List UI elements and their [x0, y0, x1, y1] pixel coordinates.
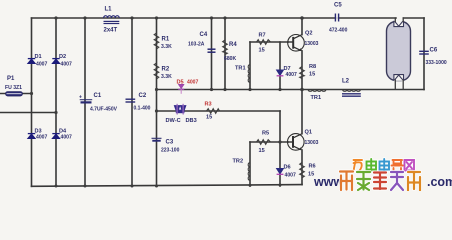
resistor R7 — [257, 33, 271, 54]
inductor L1 — [104, 7, 120, 34]
diode D4 — [52, 129, 72, 141]
svg-text:103-2A: 103-2A — [188, 42, 205, 48]
svg-text:C2: C2 — [139, 93, 147, 99]
transformer TR1 output winding — [308, 90, 326, 102]
inductor L2 — [342, 79, 361, 97]
wire D7 vertical — [279, 42, 281, 90]
wire R4 vertical — [224, 18, 226, 90]
node junction dots — [30, 16, 304, 187]
svg-text:DB3: DB3 — [186, 118, 197, 124]
diode D2 — [52, 54, 72, 68]
capacitor C6 — [419, 48, 447, 67]
svg-text:Q2: Q2 — [305, 31, 312, 37]
svg-text:.com: .com — [427, 175, 452, 189]
svg-text:4007: 4007 — [187, 80, 198, 86]
svg-text:TR2: TR2 — [233, 159, 244, 165]
svg-text:4007: 4007 — [286, 72, 297, 78]
svg-text:4007: 4007 — [61, 62, 72, 68]
wire bridge left vertical D1/D3 — [31, 18, 33, 186]
resistor R1 — [154, 33, 172, 50]
diac DW-C DB3 — [166, 104, 197, 124]
fuse P1 — [5, 76, 23, 96]
svg-text:4007: 4007 — [285, 173, 296, 179]
transistor Q2 — [288, 31, 319, 52]
svg-text:D5: D5 — [177, 80, 184, 86]
wire fuse input — [0, 93, 32, 95]
svg-text:R6: R6 — [309, 164, 316, 170]
svg-text:D2: D2 — [59, 54, 66, 60]
resistor R4 — [223, 40, 238, 62]
svg-text:3.3K: 3.3K — [161, 74, 172, 80]
wire C2 vertical — [131, 18, 133, 186]
wire Q2 base R7 — [250, 41, 288, 43]
transformer TR2 base winding — [233, 159, 251, 181]
wire D6 vertical — [279, 142, 281, 186]
svg-text:Q1: Q1 — [305, 130, 312, 136]
diode D1 — [28, 54, 48, 68]
wire Q2 emitter to node — [301, 51, 303, 90]
wire lamp bottom-right pin — [402, 80, 404, 90]
svg-text:R5: R5 — [262, 131, 269, 137]
svg-text:4007: 4007 — [36, 135, 47, 141]
svg-text:4007: 4007 — [36, 62, 47, 68]
wire top rail — [32, 17, 336, 19]
wire Q2 collector from rail — [301, 18, 303, 35]
svg-text:D1: D1 — [35, 54, 42, 60]
svg-text:L2: L2 — [342, 79, 350, 85]
svg-text:FU 3Z1: FU 3Z1 — [5, 85, 22, 91]
diode D7 — [277, 66, 297, 78]
wire C4 vertical — [211, 18, 213, 90]
wire top rail lamp to C6 corner — [404, 17, 425, 19]
diode D3 — [28, 129, 48, 141]
svg-text:www: www — [313, 175, 343, 189]
svg-text:C3: C3 — [166, 140, 174, 146]
svg-text:15: 15 — [206, 115, 212, 121]
wire DW diac horizontal — [157, 110, 281, 112]
resistor R2 — [154, 63, 172, 80]
svg-text:15: 15 — [309, 72, 315, 78]
svg-text:DW-C: DW-C — [166, 118, 181, 124]
capacitor C1 — [79, 93, 118, 113]
svg-text:+: + — [79, 95, 82, 101]
wire Q1 emitter to bottom rail — [301, 150, 303, 185]
svg-text:R4: R4 — [229, 42, 237, 48]
wire TR2 coil vertical — [249, 142, 251, 186]
capacitor C4 — [188, 32, 216, 52]
resistor R8 — [300, 64, 316, 79]
svg-text:C1: C1 — [94, 93, 102, 99]
capacitor C2 — [126, 93, 151, 112]
resistor R3 — [205, 102, 220, 121]
svg-text:472-400: 472-400 — [329, 28, 348, 34]
wire lamp top-right pin — [402, 17, 404, 22]
svg-text:680K: 680K — [224, 56, 236, 62]
wire node to Q1 collector — [301, 90, 303, 134]
wire bridge right vertical D2/D4 — [55, 18, 57, 186]
svg-text:R7: R7 — [259, 33, 266, 39]
svg-text:15: 15 — [259, 48, 265, 54]
wire R3 feed down — [279, 111, 281, 142]
watermark row1 广电电器网 — [354, 159, 415, 172]
svg-text:R1: R1 — [162, 37, 170, 43]
svg-text:TR1: TR1 — [235, 66, 246, 72]
svg-text:223-100: 223-100 — [161, 148, 180, 154]
resistor R6 — [300, 163, 316, 178]
svg-text:333-1000: 333-1000 — [426, 60, 447, 66]
wire TR1 coil vertical — [249, 42, 251, 90]
svg-text:P1: P1 — [7, 76, 15, 82]
svg-text:R3: R3 — [205, 102, 212, 108]
svg-text:R8: R8 — [309, 64, 316, 70]
svg-text:3.3K: 3.3K — [161, 44, 172, 50]
wire R1/R2/C3 vertical — [156, 18, 158, 186]
wire lamp top-left pin — [394, 17, 396, 22]
svg-text:C5: C5 — [334, 3, 342, 9]
svg-text:4007: 4007 — [61, 135, 72, 141]
diode D5 — [177, 80, 199, 94]
svg-text:TR1: TR1 — [311, 95, 322, 101]
wire AC input lower — [0, 112, 56, 114]
svg-text:4.7UF-450V: 4.7UF-450V — [90, 107, 118, 113]
svg-text:2x4T: 2x4T — [104, 28, 118, 34]
capacitor C3 — [152, 138, 180, 153]
svg-text:L1: L1 — [105, 7, 113, 13]
resistor R5 — [257, 131, 271, 155]
svg-text:D6: D6 — [284, 165, 291, 171]
wire C6 vertical — [423, 18, 425, 90]
transistor Q1 — [288, 130, 319, 151]
fluorescent lamp — [387, 17, 411, 89]
diode D6 — [277, 165, 296, 179]
wire Q1 base R5 — [250, 141, 288, 143]
svg-text:C4: C4 — [200, 32, 208, 38]
wire bottom rail — [32, 185, 303, 187]
svg-text:0.1-400: 0.1-400 — [134, 106, 151, 112]
svg-text:13003: 13003 — [305, 41, 319, 47]
svg-text:13003: 13003 — [305, 140, 319, 146]
capacitor C5 — [329, 3, 348, 34]
svg-text:C6: C6 — [430, 48, 438, 54]
svg-text:R2: R2 — [162, 67, 170, 73]
transformer TR1 base winding — [235, 65, 250, 83]
wire lamp bottom-left pin — [394, 80, 396, 90]
wire top rail right of C5 — [339, 17, 396, 19]
wire C1 vertical — [84, 18, 86, 186]
svg-text:15: 15 — [259, 148, 265, 154]
watermark row2 www big chars .com — [313, 175, 452, 189]
wire mid node horizontal — [157, 89, 425, 91]
